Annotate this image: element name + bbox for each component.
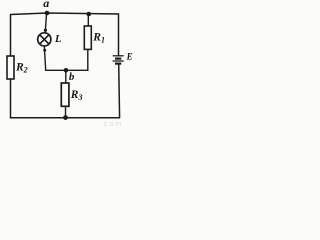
wire bottom — [10, 117, 120, 119]
node b junction dot — [64, 68, 69, 73]
svg-text:R1: R1 — [92, 32, 105, 45]
svg-text:E: E — [126, 52, 133, 62]
battery E plate long 2 — [113, 60, 124, 62]
resistor R1 — [84, 26, 91, 49]
wire left lower — [10, 79, 12, 118]
wire R3 branch upper — [65, 70, 67, 83]
node a junction dot — [45, 11, 50, 16]
battery E plate long 1 — [113, 55, 124, 57]
svg-text:L: L — [54, 34, 61, 45]
battery E plate short 2 — [115, 62, 121, 64]
svg-text:R3: R3 — [70, 89, 83, 102]
lamp bottom lead blob — [43, 49, 46, 52]
lamp top lead blob — [44, 29, 47, 32]
resistor R3 — [61, 83, 69, 106]
svg-text:R2: R2 — [15, 62, 28, 75]
battery E plate short 1 — [115, 57, 121, 59]
resistor R2 — [7, 56, 14, 79]
wire lamp branch upper — [45, 13, 46, 33]
lamp L circle — [38, 33, 51, 46]
svg-text:c o m: c o m — [104, 121, 121, 128]
wire node b horizontal — [45, 69, 89, 71]
wire lamp branch lower — [44, 46, 45, 70]
wire left upper — [10, 14, 12, 57]
R1 branch junction dot — [87, 12, 92, 17]
svg-text:b: b — [69, 71, 75, 83]
lamp X stroke 1 — [40, 35, 49, 44]
svg-text:a: a — [43, 0, 49, 10]
wire R1 branch upper — [87, 14, 89, 27]
wire right upper — [118, 14, 120, 56]
bottom junction dot — [63, 115, 68, 120]
wire R1 branch lower — [87, 49, 89, 70]
lamp X stroke 2 — [40, 35, 49, 44]
wire R3 branch lower — [65, 106, 67, 118]
wire top (left corner to node a to right corner) — [11, 13, 120, 15]
wire right lower — [118, 65, 121, 119]
